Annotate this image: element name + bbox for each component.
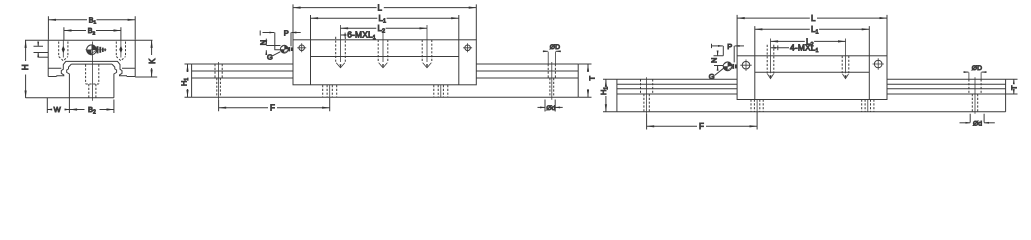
tapped hole col2 (hidden) <box>842 56 849 74</box>
small top-left dimension line with outside arrows <box>37 42 39 46</box>
rail cross-section outline <box>67 64 117 98</box>
dimension L extensions <box>737 15 887 56</box>
rail hole 2 centerline <box>329 85 331 97</box>
tapped hole col2 centerline <box>845 39 847 74</box>
dimension B1 extension lines <box>48 16 135 40</box>
tapped hole col3 centerline <box>426 25 428 62</box>
dimension T line <box>1013 79 1015 94</box>
block interior line (hole bottoms) <box>755 71 870 73</box>
rail hole 2 centerline <box>756 100 758 112</box>
dimension P left tail with arrow <box>712 45 723 47</box>
block outer edges <box>48 40 135 76</box>
small top-left dimension corner to block <box>38 56 48 58</box>
dimension B1 line <box>48 19 135 21</box>
dimension P left tail with arrow <box>263 32 275 34</box>
dimension H line <box>25 40 27 98</box>
rail groove line 1 <box>617 83 1006 85</box>
svg-text:Ød: Ød <box>973 120 982 127</box>
svg-text:H1: H1 <box>179 78 190 86</box>
svg-text:L1: L1 <box>811 25 819 36</box>
rail hole 4 centerline <box>551 62 553 100</box>
rail top line <box>617 78 1006 80</box>
dimension L1 extensions <box>755 26 870 56</box>
grease nipple hatch <box>87 45 97 55</box>
svg-text:Ød: Ød <box>546 105 555 112</box>
block body <box>737 56 887 100</box>
label Od dimension <box>970 114 984 123</box>
rail hole 4 through (hidden) <box>972 94 977 112</box>
grease fitting mark right cap <box>874 60 882 68</box>
rail hole 4 counterbore (hidden) <box>969 79 981 94</box>
svg-text:T: T <box>1010 85 1019 90</box>
block top line with H and K extensions <box>25 39 153 41</box>
under-block rail hole 3 (hidden) <box>862 100 874 112</box>
end cap left inner edge <box>754 56 756 100</box>
under-block rail hole 2 (hidden) <box>751 100 763 112</box>
svg-text:W: W <box>54 105 62 114</box>
dimension W line <box>47 109 69 111</box>
grease nipple <box>280 45 288 53</box>
dimension F line <box>219 107 330 109</box>
dimension P right tail with arrow <box>735 45 744 47</box>
block body <box>293 40 476 85</box>
small top-left dimension extension lines <box>34 46 49 52</box>
dimension T extensions <box>578 64 591 97</box>
rail groove line 3 <box>617 93 1006 95</box>
rail hole 1 counterbore (hidden) <box>641 79 653 94</box>
rail top line <box>192 63 579 65</box>
svg-text:F: F <box>699 122 704 131</box>
svg-text:N: N <box>710 58 719 63</box>
end cap left inner edge <box>310 40 312 85</box>
svg-text:P: P <box>284 29 289 38</box>
rail hole 4 counterbore (hidden) <box>548 64 555 78</box>
grease nipple stem <box>288 47 290 51</box>
svg-text:P: P <box>727 42 732 51</box>
dimension L1 line <box>755 28 870 30</box>
dimension H1 line <box>605 79 607 112</box>
dimension T extensions <box>1006 79 1018 94</box>
dimension N extension lines <box>266 46 281 50</box>
rail groove line 1 <box>192 70 579 72</box>
dimension N line with outside arrows <box>717 51 719 55</box>
rail hole 1 through (hidden) <box>217 78 221 97</box>
dimension P extensions <box>275 33 291 50</box>
rail hole 1 centerline <box>646 77 648 114</box>
label OD extension lines <box>969 72 981 79</box>
dimension MxL line <box>771 47 789 49</box>
dimension B3 bottom line <box>70 109 114 111</box>
dimension F extensions <box>219 98 330 111</box>
dimension N line with outside arrows <box>265 39 267 46</box>
tapped hole col2 (hidden) <box>378 40 388 63</box>
rail end verticals <box>617 79 1006 112</box>
block skirt step lines <box>48 67 135 69</box>
grease nipple circle <box>87 45 97 55</box>
dimension B3 right extension <box>113 100 115 114</box>
svg-text:L1: L1 <box>379 14 387 25</box>
block inner profile following rail <box>57 61 127 76</box>
dimension N extension lines <box>714 56 724 66</box>
block interior line (hole bottoms) <box>311 56 459 58</box>
under-block rail hole 2 (hidden) <box>323 85 337 97</box>
tapped hole left (hidden) <box>59 42 68 61</box>
tapped hole col1 centerline <box>770 39 772 74</box>
dimension B2 extension lines <box>64 27 121 40</box>
svg-text:ØD: ØD <box>550 44 560 51</box>
svg-text:H: H <box>21 64 30 70</box>
rail hole 1 counterbore (hidden) <box>215 64 222 78</box>
grease nipple quadrant fills <box>280 45 288 53</box>
rail hole 4 through (hidden) <box>550 78 554 97</box>
dimension H1 extensions <box>185 64 192 97</box>
svg-text:L: L <box>378 4 383 13</box>
grease nipple quadrant fills <box>723 62 732 71</box>
svg-text:H1: H1 <box>599 87 610 95</box>
dimension B2 line <box>64 30 121 32</box>
grease fitting mark right cap <box>465 45 471 51</box>
rail hole 3 centerline <box>867 100 869 112</box>
rail groove line 2 <box>617 88 1006 90</box>
dimension L1 extensions <box>311 15 459 40</box>
svg-text:6-MXL1: 6-MXL1 <box>347 30 376 41</box>
svg-text:K: K <box>148 58 157 64</box>
dimension T line <box>587 64 589 97</box>
dimension L line <box>293 7 476 9</box>
rail bolt hole through (hidden) <box>89 84 96 99</box>
rail hole 4 centerline <box>974 77 976 114</box>
dimension L extensions <box>293 4 476 39</box>
end cap right inner edge <box>458 40 460 85</box>
rail groove line 2 <box>192 77 579 79</box>
dimension F line <box>647 125 758 127</box>
tapped hole left centerline with arrows <box>62 40 64 57</box>
dimension P extensions <box>723 46 734 63</box>
tapped hole right (hidden) <box>116 42 125 61</box>
dimension MxL line <box>341 34 347 36</box>
grease nipple quadrant fills <box>87 45 97 55</box>
svg-text:ØD: ØD <box>972 65 982 72</box>
grease fitting mark left cap <box>299 45 305 51</box>
under-block rail hole 3 (hidden) <box>434 85 448 97</box>
dimension L1 line <box>311 17 459 19</box>
rail end verticals <box>192 64 579 97</box>
tapped hole col3 (hidden) <box>422 40 432 63</box>
label Od dimension <box>545 100 555 112</box>
dimension F extensions <box>647 112 758 130</box>
svg-text:B1: B1 <box>89 17 97 25</box>
svg-text:L: L <box>811 14 816 23</box>
dimension L2 line <box>341 27 428 29</box>
block skirt bottoms <box>48 76 135 78</box>
rail bolt hole counterbore (hidden) <box>86 65 99 85</box>
dimension W extension lines <box>47 98 69 113</box>
end cap right inner edge <box>868 56 870 100</box>
tapped hole right centerline with arrows <box>120 40 122 57</box>
svg-text:L2: L2 <box>378 24 386 35</box>
grease nipple stem <box>97 46 99 53</box>
rail bottom line <box>192 96 579 98</box>
rail hole 1 centerline <box>218 62 220 100</box>
svg-text:B2: B2 <box>88 28 96 36</box>
dimension L2 line <box>771 40 846 42</box>
dimension H1 line <box>187 64 189 97</box>
tapped hole col1 (hidden) <box>336 37 346 63</box>
svg-text:N: N <box>258 40 267 45</box>
grease nipple horizontal centerline <box>86 49 107 51</box>
rail bottom line <box>617 111 1006 113</box>
svg-text:G: G <box>267 52 273 61</box>
dimension P right tail with arrow <box>292 32 301 34</box>
dimension K bottom extension <box>135 76 157 78</box>
dimension L line <box>737 17 887 19</box>
tapped hole col2 centerline <box>382 32 384 63</box>
tapped hole col1 (hidden) <box>767 45 774 74</box>
grease fitting mark left cap <box>742 61 750 69</box>
rail hole 3 centerline <box>440 85 442 97</box>
rail centerline <box>91 42 93 101</box>
rail hole 1 through (hidden) <box>644 94 649 112</box>
dimension H1 extensions <box>603 79 617 112</box>
svg-text:F: F <box>270 104 275 113</box>
svg-text:4-MXL1: 4-MXL1 <box>790 43 819 54</box>
grease nipple stem <box>732 64 734 69</box>
tapped hole col1 centerline <box>340 25 342 62</box>
rail bottom line with H extension <box>26 97 114 99</box>
svg-text:G: G <box>709 72 715 81</box>
svg-text:T: T <box>588 76 597 81</box>
dimension K line <box>151 40 153 77</box>
svg-text:B2: B2 <box>88 105 96 115</box>
grease nipple <box>723 62 732 71</box>
